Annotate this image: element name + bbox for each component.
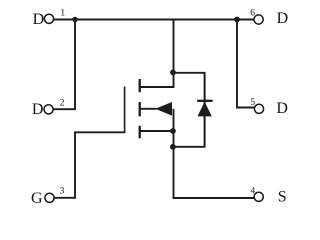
MOSFET Q1 source channel bar (bottom tick) xyxy=(139,126,141,139)
pin 6 terminal circle xyxy=(254,15,263,24)
pin 2 terminal circle xyxy=(44,105,53,114)
wire: pin5 horizontal to its circle xyxy=(236,107,254,109)
wire: gate horizontal over to gate electrode xyxy=(74,131,125,133)
svg-text:D: D xyxy=(32,101,44,118)
MOSFET Q1 drain channel bar (top tick) xyxy=(139,79,141,92)
junction dot at node D (top right, x=237) xyxy=(234,17,240,23)
svg-text:3: 3 xyxy=(60,187,65,197)
svg-text:2: 2 xyxy=(60,98,65,108)
svg-text:D: D xyxy=(277,10,289,27)
MOSFET Q1 substrate arrowhead (points left) xyxy=(155,102,172,116)
pin 3 terminal circle xyxy=(45,193,54,202)
wire: drain vertical up to top rail xyxy=(173,19,175,88)
MOSFET Q1 body channel bar (middle tick) xyxy=(139,102,141,116)
MOSFET Q1 substrate lead with arrow xyxy=(141,108,157,110)
junction dot at node D (top left, x=75) xyxy=(72,17,78,23)
wire: gate pin horizontal from circle to riser xyxy=(54,197,76,199)
svg-text:1: 1 xyxy=(60,9,65,19)
wire: substrate down to source node xyxy=(173,109,175,131)
wire: source lead from bottom tick to source vertical xyxy=(141,130,175,132)
body diode vertical lead xyxy=(204,73,206,147)
pin 1 terminal circle xyxy=(44,14,53,23)
wire: S pin horizontal from source vertical to pin4 circle xyxy=(173,197,255,199)
junction dot where body-diode cathode branch taps drain xyxy=(170,70,176,76)
body diode anode triangle (points up) xyxy=(198,102,212,117)
pin 4 terminal circle xyxy=(254,192,263,201)
svg-text:S: S xyxy=(278,189,287,206)
junction dot where body-diode anode branch joins source xyxy=(170,144,176,150)
wire: vertical from top rail down to pin5 row xyxy=(236,20,238,109)
MOSFET Q1 gate electrode vertical line xyxy=(124,87,126,133)
pin 5 terminal circle xyxy=(254,104,263,113)
wire: body diode bottom branch (from anode side) xyxy=(173,146,206,148)
body diode cathode bar xyxy=(197,100,212,102)
svg-text:G: G xyxy=(31,190,43,207)
wire: drain lead from top tick to drain vertical xyxy=(141,86,175,88)
wire: source vertical down to S pin row xyxy=(173,131,175,199)
junction dot at source node xyxy=(170,128,176,134)
wire: gate riser vertical up xyxy=(74,132,76,198)
wire: body diode top branch (to cathode side) xyxy=(173,72,206,74)
wire: top rail from pin1 circle to pin6 circle xyxy=(54,19,254,21)
svg-text:D: D xyxy=(276,100,288,117)
wire: pin2 horizontal to vertical riser xyxy=(53,108,76,110)
wire: vertical from top-rail junction down to pin2 wire xyxy=(74,20,76,110)
svg-text:D: D xyxy=(33,11,45,28)
